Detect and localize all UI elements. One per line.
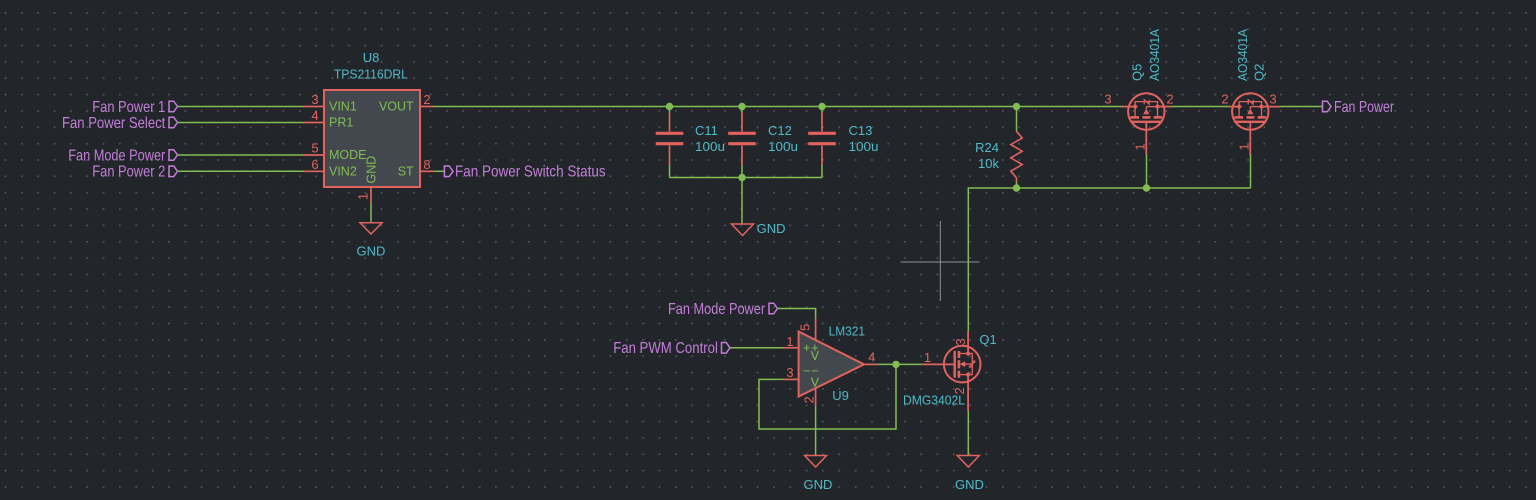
svg-text:MODE: MODE [329, 148, 367, 162]
svg-text:1: 1 [786, 334, 793, 349]
svg-text:GND: GND [757, 221, 786, 236]
svg-text:DMG3402L: DMG3402L [903, 392, 965, 407]
svg-text:−: − [803, 364, 810, 378]
svg-text:2: 2 [1166, 92, 1173, 107]
svg-text:5: 5 [311, 141, 318, 156]
svg-text:5: 5 [798, 324, 813, 331]
svg-text:10k: 10k [978, 156, 999, 171]
svg-text:1: 1 [1237, 143, 1252, 150]
svg-text:VIN1: VIN1 [329, 100, 357, 114]
svg-text:3: 3 [786, 365, 793, 380]
svg-text:4: 4 [311, 108, 318, 123]
svg-text:Fan Power: Fan Power [1334, 99, 1395, 116]
svg-text:ST: ST [398, 164, 414, 178]
svg-text:1: 1 [356, 193, 371, 200]
svg-text:Fan Mode Power: Fan Mode Power [68, 147, 166, 164]
svg-text:GND: GND [955, 477, 984, 492]
svg-text:3: 3 [311, 92, 318, 107]
svg-text:3: 3 [953, 338, 968, 345]
svg-text:Fan Power 1: Fan Power 1 [92, 99, 165, 116]
svg-text:R24: R24 [975, 140, 999, 155]
svg-text:C12: C12 [768, 123, 792, 138]
svg-text:Q1: Q1 [979, 332, 996, 347]
svg-text:GND: GND [364, 156, 378, 184]
svg-text:100u: 100u [768, 139, 798, 154]
svg-text:100u: 100u [695, 139, 725, 154]
svg-text:AO3401A: AO3401A [1147, 29, 1162, 81]
svg-text:U9: U9 [832, 388, 849, 403]
svg-text:V: V [811, 375, 820, 389]
svg-text:Fan Power 2: Fan Power 2 [92, 164, 165, 181]
svg-text:+: + [803, 341, 810, 355]
svg-text:GND: GND [357, 244, 386, 259]
svg-text:C11: C11 [695, 123, 718, 138]
svg-text:Fan Power Switch Status: Fan Power Switch Status [455, 164, 606, 181]
svg-text:TPS2116DRL: TPS2116DRL [334, 66, 408, 81]
svg-text:3: 3 [1269, 92, 1276, 107]
svg-text:1: 1 [924, 350, 931, 365]
svg-text:LM321: LM321 [829, 324, 865, 339]
svg-text:PR1: PR1 [329, 116, 353, 130]
svg-text:AO3401A: AO3401A [1235, 29, 1250, 81]
svg-text:U8: U8 [363, 50, 380, 65]
svg-text:VIN2: VIN2 [329, 164, 357, 178]
svg-text:GND: GND [804, 477, 833, 492]
svg-text:100u: 100u [849, 139, 879, 154]
svg-text:2: 2 [423, 92, 430, 107]
svg-text:C13: C13 [849, 123, 873, 138]
svg-text:3: 3 [1104, 92, 1111, 107]
svg-text:VOUT: VOUT [379, 100, 414, 114]
svg-text:Fan PWM Control: Fan PWM Control [613, 340, 718, 357]
svg-text:2: 2 [1221, 92, 1228, 107]
svg-text:8: 8 [423, 157, 430, 172]
svg-text:Q5: Q5 [1130, 64, 1145, 81]
svg-text:V: V [811, 349, 820, 363]
svg-text:1: 1 [1133, 143, 1148, 150]
svg-text:6: 6 [311, 157, 318, 172]
svg-text:Q2: Q2 [1252, 64, 1267, 81]
svg-text:Fan Mode Power: Fan Mode Power [668, 301, 766, 318]
svg-text:Fan Power Select: Fan Power Select [62, 115, 166, 132]
svg-text:4: 4 [868, 350, 875, 365]
svg-text:2: 2 [802, 396, 817, 403]
